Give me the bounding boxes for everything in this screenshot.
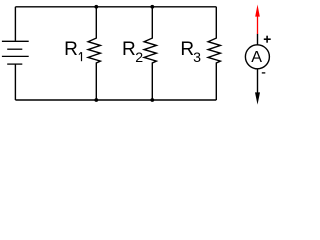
svg-text:R: R xyxy=(180,39,194,60)
svg-text:R: R xyxy=(122,39,136,60)
svg-text:A: A xyxy=(251,48,262,66)
svg-text:2: 2 xyxy=(135,50,143,66)
svg-text:R: R xyxy=(64,39,78,60)
svg-text:3: 3 xyxy=(193,50,201,66)
